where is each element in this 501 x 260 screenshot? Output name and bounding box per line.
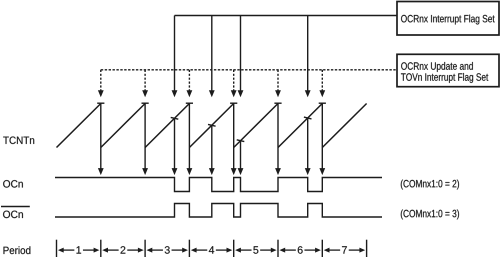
arrow from compare match 5 down to OCn line bbox=[238, 141, 244, 175]
tick at compare match period 4 bbox=[208, 124, 216, 126]
arrow from TOP 2 down to OCn line bbox=[142, 104, 148, 176]
period axis: ticks, arrows, segment numbers 1-7 bbox=[57, 240, 367, 257]
tick at TOP of period 2 bbox=[142, 102, 149, 104]
OCn-bar waveform (COMnx1:0 = 3) bbox=[55, 204, 382, 218]
arrow from compare match 4 down to OCn line bbox=[209, 125, 215, 175]
arrow from TOP 5 down to OCn line bbox=[275, 104, 281, 176]
box OCRnx Update and TOVn Interrupt Flag Set bbox=[397, 54, 499, 86]
tick at TOP of period 4 bbox=[230, 102, 237, 104]
arrow from TOP 1 down to OCn line bbox=[98, 104, 104, 176]
wire: solid line from OCRnx Interrupt Flag Set box bbox=[175, 15, 398, 17]
wire: dashed line from OCRnx Update box bbox=[101, 69, 397, 71]
arrow from TOP 6 down to OCn line bbox=[319, 104, 325, 176]
label (COMnx1:0 = 2) bbox=[401, 180, 459, 190]
solid arrow: compare match period 6 bbox=[305, 16, 311, 98]
dashed arrow: TOP of period 4 bbox=[231, 70, 237, 97]
label (COMnx1:0 = 3) bbox=[401, 210, 459, 220]
dashed arrow: TOP of period 3 bbox=[187, 70, 193, 97]
OCn waveform (COMnx1:0 = 2) bbox=[55, 178, 382, 192]
tick at compare match period 6 bbox=[304, 117, 312, 119]
TCNTn sawtooth waveform bbox=[57, 104, 367, 148]
arrow from compare match 3 down to OCn line bbox=[172, 118, 178, 175]
OCn-bar label with overline bbox=[1, 207, 30, 219]
dashed arrow: TOP of period 6 bbox=[319, 70, 325, 97]
OCn label bbox=[3, 180, 23, 188]
tick at TOP of period 3 bbox=[186, 102, 193, 104]
tick at TOP of period 6 bbox=[319, 102, 326, 104]
tick at TOP of period 5 bbox=[274, 102, 281, 104]
arrow from TOP 3 down to OCn line bbox=[187, 104, 193, 176]
dashed arrow: TOP of period 5 bbox=[275, 70, 281, 97]
Period label bbox=[4, 246, 31, 254]
dashed arrow: TOP of period 2 bbox=[142, 70, 148, 97]
solid arrow: compare match period 4 bbox=[209, 16, 215, 98]
arrow from TOP 4 down to OCn line bbox=[231, 104, 237, 176]
solid arrow: compare match period 3 bbox=[172, 16, 178, 98]
arrow from compare match 6 down to OCn line bbox=[305, 118, 311, 175]
box OCRnx Interrupt Flag Set bbox=[397, 2, 499, 36]
solid arrow: compare match period 5 bbox=[238, 16, 244, 98]
TCNTn label bbox=[3, 137, 34, 145]
dashed arrow: TOP of period 1 bbox=[98, 70, 104, 97]
tick at TOP of period 1 bbox=[97, 102, 104, 104]
tick at compare match period 3 bbox=[171, 117, 179, 119]
tick at compare match period 5 bbox=[237, 140, 245, 142]
